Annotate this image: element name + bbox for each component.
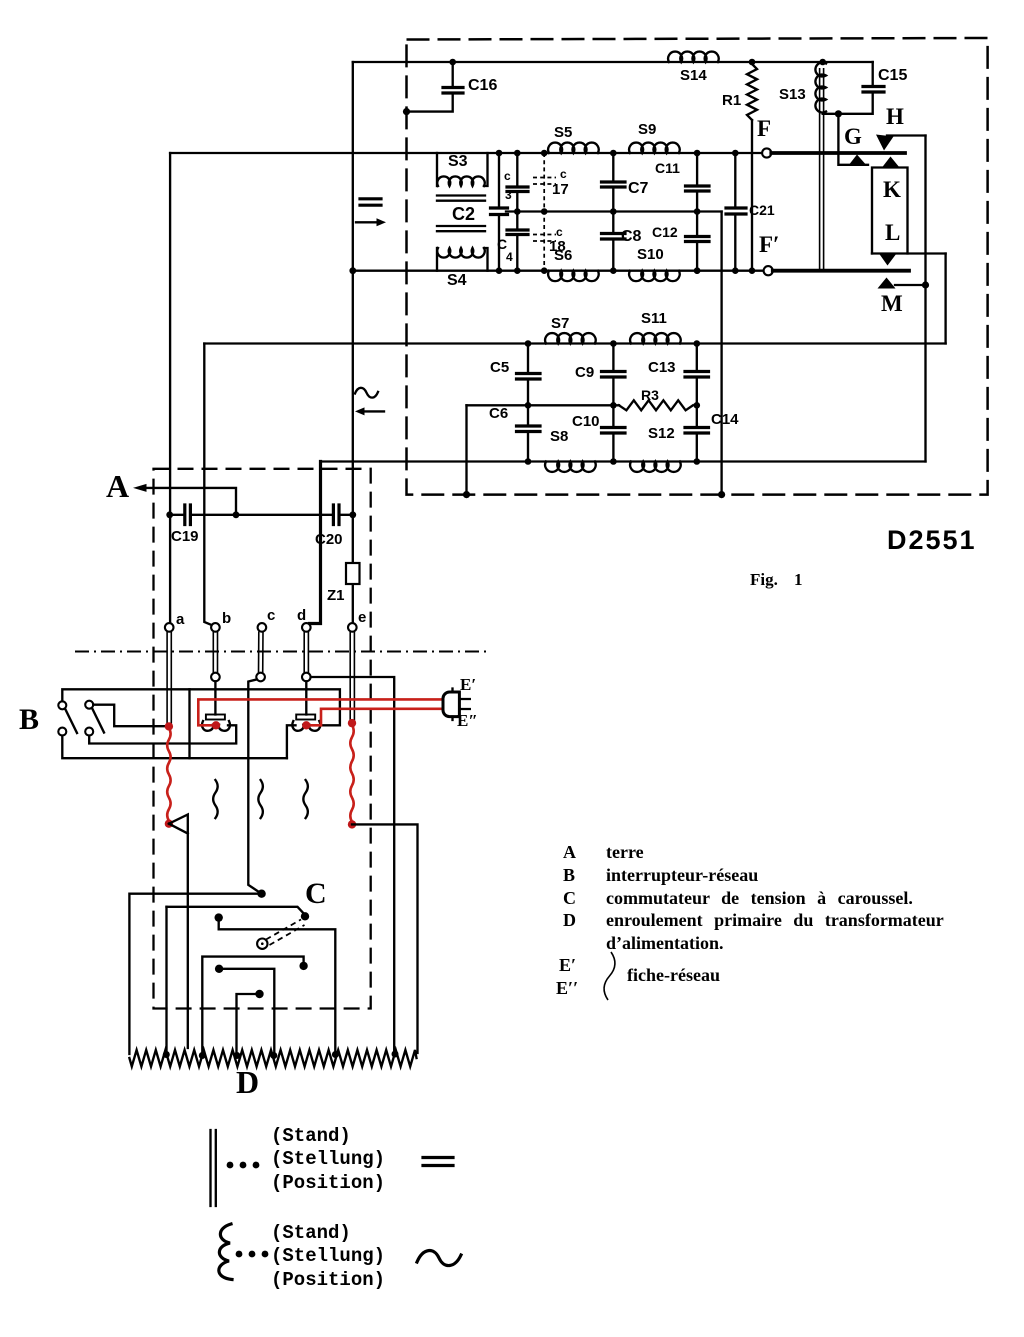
svg-text:S4: S4 — [447, 272, 467, 289]
wire F-prime rail (S4 bottom rail) — [353, 270, 764, 272]
terminal c — [258, 623, 267, 632]
capacitor C15 — [872, 62, 874, 86]
key symbol xi position — [219, 1224, 232, 1280]
transformer S3 (primary) — [436, 153, 438, 186]
svg-text:interrupteur-réseau: interrupteur-réseau — [606, 865, 758, 885]
svg-text:(Position): (Position) — [271, 1172, 385, 1194]
contact M (triangle up) — [878, 278, 896, 289]
capacitor C14 — [696, 405, 698, 427]
svg-text:C6: C6 — [489, 405, 508, 422]
svg-text:C19: C19 — [171, 528, 199, 545]
node top bus / C16 — [449, 59, 456, 66]
capacitor C10 — [612, 405, 614, 427]
inductor S8 — [545, 462, 596, 472]
transformer core lines — [437, 196, 485, 232]
wire F rail (S3 top rail) — [170, 152, 762, 154]
svg-text:C10: C10 — [572, 413, 600, 430]
svg-text:(Position): (Position) — [271, 1269, 385, 1291]
key symbol tilde (AC) — [417, 1251, 461, 1266]
capacitor C9 — [612, 344, 614, 372]
svg-text:fiche-réseau: fiche-réseau — [627, 965, 720, 985]
inductor S13 — [815, 63, 826, 113]
svg-text:C11: C11 — [655, 160, 680, 176]
resistor R3 — [619, 400, 693, 410]
wire middle row lower filter — [467, 404, 620, 406]
svg-text:R3: R3 — [641, 387, 659, 403]
svg-text:1: 1 — [794, 570, 803, 589]
capacitor C21 — [734, 153, 736, 208]
svg-text:C2: C2 — [452, 204, 475, 224]
terminal e bushing — [350, 632, 354, 721]
wire B pole1 bottom rail — [62, 736, 287, 759]
wire d lower to fuse2 — [305, 681, 307, 714]
svg-text:enroulement primaire du transf: enroulement primaire du transformateur — [606, 910, 944, 930]
reversible plate K/L box — [872, 168, 908, 254]
wire left vertical x352 (top bus to S4 rail, C20, Z1, e) — [352, 62, 354, 623]
mains plug E (body) — [443, 692, 459, 717]
wire a-joint to transformer (tap triangle) — [169, 815, 188, 1049]
svg-text:S13: S13 — [779, 86, 806, 103]
svg-text:E′: E′ — [460, 675, 476, 694]
terminal b — [211, 623, 220, 632]
node C16 to shield frame — [403, 108, 410, 115]
svg-text:a: a — [176, 611, 185, 628]
node S11 right / C13 — [694, 340, 701, 347]
svg-text:(Stand): (Stand) — [271, 1222, 351, 1244]
inductor S12 — [630, 462, 681, 472]
node A branch — [233, 511, 240, 518]
svg-text:c: c — [560, 167, 567, 181]
capacitor C17 (dashed, optional) — [543, 153, 545, 271]
svg-text:A: A — [563, 842, 576, 862]
red mains flexible wire e — [350, 725, 353, 822]
plug nubs — [451, 689, 453, 721]
selector contact row2-left to tap 335 — [215, 913, 223, 921]
wire B pole1 top to fuse2 right — [62, 689, 340, 725]
svg-text:G: G — [844, 124, 862, 149]
svg-text:S9: S9 — [638, 121, 656, 138]
svg-text:b: b — [222, 610, 231, 627]
red cord conductor 2 (fuse2 to plug) — [306, 709, 443, 726]
svg-text:C5: C5 — [490, 359, 509, 376]
capacitor C5 — [527, 344, 529, 374]
wire top bus from corner to C15 — [353, 61, 873, 63]
selector contact row3-left to tap 274 — [215, 965, 223, 973]
wire lower filter top rail (from b) — [204, 342, 945, 344]
svg-text:Z1: Z1 — [327, 587, 345, 604]
node S5 left — [541, 150, 548, 157]
svg-text:S6: S6 — [554, 247, 572, 264]
inductor S7 — [545, 333, 596, 343]
wire e-joint to transformer right end — [352, 824, 418, 1053]
wire K/L box to lower filter top rail — [944, 254, 946, 344]
svg-text:4: 4 — [506, 250, 513, 264]
svg-text:C7: C7 — [628, 180, 649, 197]
switch B blade 2 — [92, 708, 104, 733]
node F-prime rail / S10 — [694, 267, 701, 274]
plug pins E-prime / E-second — [459, 699, 469, 709]
wire fuse2 left drop — [287, 725, 296, 758]
inductor S11 — [630, 333, 681, 343]
symbol AC (~) with arrow — [355, 388, 378, 398]
selector rotor contact — [301, 912, 309, 920]
svg-text:F′: F′ — [759, 232, 780, 257]
node F-prime rail / R1 — [749, 267, 756, 274]
selector feed wire from B (to rotor contact) — [167, 907, 305, 915]
svg-text:B: B — [563, 865, 575, 885]
capacitor C20 — [333, 505, 339, 525]
svg-text:d: d — [297, 607, 306, 624]
node C3/C4 middle row — [514, 208, 521, 215]
terminal d lower circle — [302, 673, 311, 682]
svg-text:C: C — [305, 877, 327, 910]
wire lower filter bottom rail (from d) — [321, 460, 926, 462]
svg-text:S7: S7 — [551, 315, 569, 332]
capacitor C12 — [696, 212, 698, 237]
wire c lower jog down to selector — [248, 680, 261, 894]
terminal b lower circle — [211, 673, 220, 682]
key symbol parallel-bars position — [211, 1130, 216, 1206]
resistor R1 — [747, 64, 757, 120]
svg-text:e: e — [358, 609, 366, 626]
capacitor C7 — [612, 153, 614, 182]
svg-text:F: F — [757, 116, 771, 141]
node S7 left / C5 — [525, 340, 532, 347]
capacitor C8 — [612, 212, 614, 234]
contact G (triangle up) — [849, 155, 866, 165]
transformer S4 (secondary) — [436, 248, 438, 271]
terminal d — [302, 623, 311, 632]
selector C left outer wire (winding end) — [129, 894, 261, 1054]
inductor S5 — [548, 143, 599, 153]
svg-text:C21: C21 — [749, 202, 775, 218]
contact K (triangle up on box) — [882, 157, 900, 168]
wire B pole2 bottom to fuse1 right — [89, 725, 236, 743]
svg-text:terre: terre — [606, 842, 644, 862]
key symbol equals (DC) — [423, 1158, 453, 1166]
svg-text:E″: E″ — [457, 711, 478, 730]
node C19 left — [166, 511, 173, 518]
winding D (primary zigzag) — [129, 1050, 416, 1067]
svg-text:B: B — [19, 703, 39, 736]
wire F-rail down to C19/a — [169, 153, 171, 623]
svg-text:(Stellung): (Stellung) — [271, 1148, 385, 1170]
node S14/R1 — [749, 59, 756, 66]
node S9/C11 — [694, 150, 701, 157]
svg-text:S11: S11 — [641, 310, 667, 327]
terminal F-prime (circle) — [764, 266, 773, 275]
svg-text:C14: C14 — [711, 411, 739, 428]
wire b riser (lower filter top rail to b) — [204, 344, 211, 626]
svg-text:C12: C12 — [652, 224, 678, 240]
svg-text:S5: S5 — [554, 124, 572, 141]
selector rotor arm (dashed) — [266, 920, 305, 946]
tap dots on winding D — [163, 1051, 170, 1058]
svg-text:S10: S10 — [637, 246, 664, 263]
inductor S10 — [629, 271, 680, 281]
node F rail / C21 — [732, 150, 739, 157]
terminal e — [348, 623, 357, 632]
wire F blade (thick) — [771, 151, 905, 155]
mains unit border (dashed box) — [154, 469, 371, 1009]
selector contact row4 to tap 237 — [255, 990, 263, 998]
flexible lead squiggle b — [213, 780, 218, 818]
svg-text:C15: C15 — [878, 67, 907, 84]
node S13/C15 bottom / G branch — [835, 110, 842, 117]
contact H (triangle down) — [876, 135, 894, 151]
wire d lower to transformer tap — [311, 677, 395, 1055]
capacitor C4 — [516, 212, 518, 230]
switch B contacts — [58, 701, 66, 709]
wire b lower to fuse1 — [214, 681, 216, 714]
svg-text:D: D — [563, 910, 576, 930]
svg-text:D2551: D2551 — [887, 525, 977, 555]
capacitor C13 — [696, 344, 698, 372]
fuse Z1 (rect) — [346, 563, 360, 584]
terminal c bushing — [259, 632, 264, 675]
capacitor C11 — [696, 153, 698, 186]
svg-text:(Stand): (Stand) — [271, 1125, 351, 1147]
svg-text:S12: S12 — [648, 425, 675, 442]
svg-text:d’alimentation.: d’alimentation. — [606, 933, 724, 953]
capacitor C19 — [170, 514, 185, 516]
svg-text:K: K — [883, 177, 901, 202]
red mains flexible wire a — [167, 728, 170, 821]
node M / chassis column — [922, 281, 929, 288]
terminal A arrow (earth) — [144, 488, 236, 515]
inductor S14 — [668, 52, 719, 62]
wire G contact branch — [838, 114, 868, 165]
fuse holder clip 2 (under d) — [296, 715, 315, 720]
capacitor C2 — [496, 150, 503, 157]
node top bus / S13 — [819, 59, 826, 66]
wire middle row upper filter — [506, 210, 722, 212]
svg-text:M: M — [881, 291, 903, 316]
switch B blade 1 — [65, 709, 77, 734]
contact L (triangle down under box) — [879, 254, 897, 266]
wire B pole2 top to a mains joint — [93, 705, 165, 727]
svg-text:C13: C13 — [648, 359, 676, 376]
svg-text:(Stellung): (Stellung) — [271, 1245, 385, 1267]
node S7/S11/C9 — [610, 340, 617, 347]
svg-text:E′′: E′′ — [556, 978, 578, 998]
terminal a — [165, 623, 174, 632]
node S4 rail / x352 wire — [349, 267, 356, 274]
symbol DC (=) with arrow — [360, 199, 381, 205]
wire rotor feed to tap 166 — [165, 907, 167, 1055]
filter unit shield border (dashed box) — [407, 38, 988, 495]
svg-text:C9: C9 — [575, 364, 594, 381]
chassis line (dash-dot) — [75, 651, 489, 653]
flexible lead squiggle d — [303, 780, 308, 818]
svg-text:L: L — [885, 220, 900, 245]
terminal c lower circle — [256, 673, 265, 682]
svg-text:E′: E′ — [559, 955, 576, 975]
svg-text:c: c — [556, 225, 563, 239]
wire H to chassis column — [887, 134, 926, 136]
svg-text:commutateur de tension à carou: commutateur de tension à caroussel. — [606, 888, 913, 908]
svg-text:S14: S14 — [680, 67, 707, 84]
svg-text:D: D — [236, 1064, 259, 1100]
svg-text:C: C — [563, 888, 576, 908]
svg-text:c: c — [267, 607, 275, 624]
selector contact top — [257, 890, 265, 898]
svg-text:c: c — [504, 169, 511, 183]
wire chassis column H-M-lower rail — [924, 136, 926, 462]
capacitor C6 — [527, 405, 529, 425]
flexible lead squiggle c — [258, 780, 263, 818]
svg-text:3: 3 — [505, 188, 512, 202]
svg-text:C8: C8 — [621, 228, 642, 245]
svg-text:17: 17 — [552, 181, 569, 198]
capacitor C16 — [452, 62, 454, 87]
svg-text:S3: S3 — [448, 153, 468, 170]
svg-text:R1: R1 — [722, 92, 741, 109]
svg-text:H: H — [886, 104, 904, 129]
red joint dots — [165, 722, 173, 730]
svg-text:Fig.: Fig. — [750, 570, 778, 589]
selector rotor pivot — [257, 939, 267, 949]
terminal a bushing (double line) — [167, 632, 171, 724]
selector contact row3-right to tap 202 — [299, 962, 307, 970]
terminal b bushing — [213, 632, 217, 675]
red cord conductor 1 (fuse1 to plug) — [198, 699, 443, 725]
svg-text:S8: S8 — [550, 428, 568, 445]
svg-text:A: A — [106, 468, 129, 504]
svg-text:C16: C16 — [468, 77, 497, 94]
inductor S9 — [629, 143, 680, 153]
fuse holder clip 1 (under b) — [206, 715, 225, 720]
wire bridge x189.5 — [188, 689, 190, 758]
wire middle row drop to shield bottom — [465, 405, 467, 494]
node C20 / x352 wire — [349, 511, 356, 518]
terminal d bushing — [304, 632, 308, 675]
node S5/S9/C7 — [610, 150, 617, 157]
wire d riser (lower filter bottom rail to d) — [310, 462, 321, 624]
terminal F (circle) — [762, 148, 771, 157]
inductor S6 — [548, 271, 599, 281]
wire middle row drop to shield bottom — [720, 212, 722, 495]
capacitor C3 — [514, 150, 521, 157]
wire feedline double line through S13 down to F-prime rail — [820, 68, 824, 271]
wire F-prime blade (thick) — [773, 269, 909, 273]
